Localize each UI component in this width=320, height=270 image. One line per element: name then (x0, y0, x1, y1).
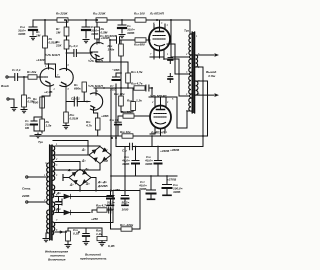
svg-text:Ср 0,1: Ср 0,1 (71, 97, 80, 101)
PSU caps row2 (147, 176, 172, 199)
wire top B+ bus (33, 20, 190, 34)
svg-text:Л3 6П14П: Л3 6П14П (150, 131, 166, 135)
resistor R20 (119, 73, 124, 112)
PSU line 222 (55, 222, 113, 224)
PSU bus 190 (55, 190, 140, 192)
svg-text:1,2к: 1,2к (136, 99, 142, 103)
PSU caps row1 (132, 147, 162, 177)
resistor R12 (119, 40, 124, 73)
resistor R21 (110, 62, 130, 88)
svg-text:300В: 300В (91, 32, 99, 36)
output arrow bottom (215, 93, 220, 97)
resistor R16 grid L3 (134, 86, 145, 90)
svg-text:+270В: +270В (167, 178, 177, 182)
svg-text:1М: 1М (56, 31, 61, 35)
wire input to grid (18, 76, 28, 78)
svg-text:300В: 300В (145, 162, 153, 166)
Tr1 primary winding (47, 163, 49, 204)
resistor R5 (43, 20, 49, 69)
long bias vertical (110, 88, 112, 191)
Tr1 secondary winding HV (53, 146, 55, 160)
svg-text:Д226Б: Д226Б (97, 184, 108, 188)
feedback resistor R26 on bus (122, 134, 133, 138)
resistor R7 divider top (64, 20, 69, 40)
svg-text:+250: +250 (91, 217, 98, 221)
svg-text:С1 0,1: С1 0,1 (12, 68, 21, 72)
output arrow top (215, 53, 220, 57)
svg-text:+2,4В: +2,4В (44, 90, 53, 94)
svg-text:С13 50: С13 50 (110, 118, 119, 122)
PSU caps left pair (107, 147, 129, 206)
svg-text:R20 10к: R20 10к (114, 92, 125, 96)
wire C2 to V2 grid (49, 64, 56, 77)
output tube L3 envelope (150, 106, 171, 129)
svg-text:Л2 6П14П: Л2 6П14П (149, 12, 165, 16)
svg-text:0,51М: 0,51М (70, 117, 79, 121)
svg-text:R23 680: R23 680 (121, 110, 132, 114)
grid line R23 to L3 (118, 114, 150, 118)
resistor R4 (40, 97, 45, 108)
resistor R10 grid leak (63, 102, 69, 129)
wire feedback lower branch (116, 136, 203, 147)
wire V3 anode to R6 (97, 38, 99, 40)
L2 electrodes (153, 32, 166, 47)
capacitor C13 50 (115, 116, 121, 136)
wire mid ground/feedback bus (30, 135, 208, 137)
svg-text:680к: 680к (74, 87, 81, 91)
svg-text:предохранитель: предохранитель (80, 257, 107, 261)
resistor R9 680k (82, 82, 86, 102)
capacitor C4 coupling V2->V4 (66, 97, 82, 106)
resistor R14 grid L2 (135, 38, 150, 42)
svg-text:30,0: 30,0 (110, 88, 116, 92)
svg-text:300В: 300В (127, 31, 135, 35)
svg-text:1000: 1000 (107, 208, 114, 212)
svg-text:R13 100: R13 100 (134, 12, 145, 16)
resistor R1 grid leak (21, 77, 27, 113)
capacitor C14 (29, 20, 37, 40)
wire V4 grid dashes (82, 101, 90, 103)
svg-text:Сеть: Сеть (22, 187, 31, 191)
svg-text:0,25: 0,25 (73, 232, 79, 236)
capacitor C11 small (168, 57, 173, 59)
svg-text:1000: 1000 (122, 208, 129, 212)
pin number specks (43, 23, 200, 232)
svg-text:6,3В: 6,3В (108, 244, 115, 248)
heater line bottom (55, 231, 66, 233)
svg-text:−46В: −46В (112, 68, 120, 72)
wire V3 cathode chain (96, 40, 110, 62)
svg-text:600: 600 (33, 101, 38, 105)
svg-text:R11 220К: R11 220К (93, 12, 107, 16)
resistor R6 (95, 22, 100, 44)
bridge 1 D1-D4 (89, 147, 111, 164)
svg-text:100к: 100к (108, 48, 115, 52)
feedback capacitor C12 (130, 143, 133, 149)
resistor R3 grid stop (28, 75, 37, 79)
L2 leads (150, 20, 165, 58)
wire L3 grid feed (149, 88, 152, 97)
bridge 2 D5-D8 (69, 169, 91, 186)
input ground terminal (7, 98, 17, 111)
indicator lamp (65, 228, 71, 248)
output tube L2 envelope (149, 28, 170, 51)
svg-text:С9 10×400В: С9 10×400В (100, 34, 118, 38)
L3 electrodes (154, 110, 167, 125)
capacitor C3 (82, 20, 90, 43)
svg-text:4,7к: 4,7к (85, 124, 92, 128)
capacitor PSU small (56, 197, 61, 213)
capacitor C1 (15, 74, 18, 81)
bottom cap (68, 228, 102, 245)
PSU line 196 with diode D9 (55, 191, 113, 197)
resistor R19 (121, 88, 135, 112)
PSU bus 176 (111, 175, 177, 177)
svg-text:½Л1 6Н1П: ½Л1 6Н1П (45, 53, 60, 57)
capacitor C8 (118, 20, 126, 38)
svg-text:+340В: +340В (160, 149, 170, 153)
svg-text:300В: 300В (18, 32, 26, 36)
bridge 1 AC feed top (55, 145, 100, 148)
svg-text:R3 20к: R3 20к (27, 70, 37, 74)
transformer Tr2 core (192, 32, 196, 113)
wire V1 cathode down (42, 96, 50, 117)
svg-text:+140В: +140В (36, 58, 46, 62)
triode V4 electrodes (91, 88, 96, 113)
PSU line 212 with diode D10 (55, 212, 90, 214)
resistor R28 (97, 228, 107, 246)
resistor R25 (92, 210, 97, 213)
wire L3 cath rail (150, 133, 155, 135)
triode V1 envelope (40, 68, 53, 86)
Tr2 secondary winding (196, 55, 198, 67)
triode V4 envelope (90, 93, 102, 110)
capacitor C2 coupling to V3 (67, 50, 93, 57)
Tr1 heater gnd (43, 233, 49, 242)
svg-text:1М: 1М (36, 34, 41, 38)
svg-text:+46В: +46В (101, 114, 109, 118)
resistor R11 cathode V4 (94, 113, 101, 136)
triode V1 electrodes (42, 64, 51, 96)
junction dots right (111, 19, 204, 139)
diode D9 (64, 194, 71, 199)
svg-text:R14 680: R14 680 (134, 43, 145, 47)
wire heater AC pair (53, 141, 89, 156)
junction dots PSU (65, 135, 168, 233)
svg-text:−250: −250 (113, 188, 120, 192)
resistor R9b horizontal on bus (135, 18, 146, 22)
svg-text:R27~220к: R27~220к (120, 223, 134, 227)
mains terminals (28, 163, 46, 202)
svg-text:400В: 400В (138, 187, 147, 191)
triode V2 electrodes (62, 82, 67, 101)
diode D10 (64, 210, 71, 215)
bridge 2 feeds (55, 162, 80, 170)
svg-text:½Л2 6П14П: ½Л2 6П14П (150, 94, 167, 98)
transformer Tr1 core (49, 145, 53, 240)
resistor R8 divider bottom (64, 40, 69, 71)
svg-text:22К: 22К (55, 44, 62, 48)
svg-text:Ср 0,1: Ср 0,1 (69, 44, 78, 48)
triode V3 envelope (90, 42, 103, 59)
capacitor C9 coupling to L2 (110, 37, 135, 43)
capacitor C10 series L3 (145, 85, 149, 91)
svg-text:1,2к: 1,2к (96, 232, 102, 236)
L3 leads (155, 97, 166, 136)
svg-text:R9 220К: R9 220К (56, 12, 68, 16)
svg-text:1,5к: 1,5к (46, 124, 52, 128)
svg-text:Включения: Включения (48, 258, 66, 262)
svg-text:400В: 400В (121, 162, 130, 166)
svg-text:½Л1 6Н1П: ½Л1 6Н1П (88, 84, 103, 88)
resistor R27 loop (111, 191, 141, 232)
wire L3 anode to transformer bottom (149, 96, 172, 98)
svg-text:R22 4,7к: R22 4,7к (131, 82, 143, 86)
svg-text:R21 1,5к: R21 1,5к (131, 70, 143, 74)
svg-text:50,2×: 50,2× (107, 201, 115, 205)
mains terminal stub (55, 199, 62, 205)
svg-text:300В: 300В (173, 190, 181, 194)
bridge 1 AC bottom to tap (55, 164, 100, 171)
bias column -46V (113, 73, 122, 136)
svg-text:4 Ом: 4 Ом (207, 74, 216, 78)
resistor R9 (57, 18, 68, 22)
Tr2 primary winding (189, 34, 191, 55)
wire grid line y88 (94, 87, 133, 89)
wire L2 g2 rail (171, 20, 188, 57)
input terminal (8, 76, 14, 78)
svg-text:+360В: +360В (170, 148, 180, 152)
triode V3 electrodes (91, 39, 99, 62)
cathode RC network V1 (31, 117, 44, 138)
capacitor C10 small (168, 76, 173, 78)
svg-text:Вход: Вход (1, 84, 9, 88)
svg-text:R26 10к: R26 10к (120, 130, 131, 134)
svg-text:50,2×: 50,2× (122, 201, 130, 205)
svg-text:220В: 220В (21, 194, 30, 198)
Tr2 secondary taps (196, 55, 214, 147)
junction dots top (23, 19, 158, 102)
resistor R13a on bus (96, 18, 107, 22)
triode V2 envelope (60, 69, 73, 87)
